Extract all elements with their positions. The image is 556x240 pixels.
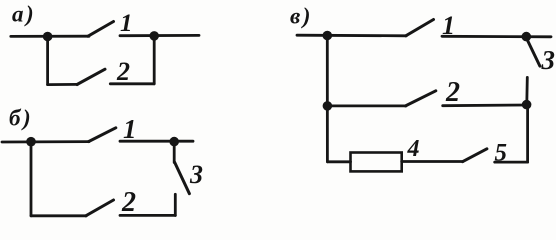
node junction left (circuit a) bbox=[43, 32, 53, 42]
switch 2 blade (circuit b) bbox=[86, 200, 114, 216]
wire bbox=[442, 35, 551, 38]
svg-text:2: 2 bbox=[445, 77, 460, 108]
svg-text:1: 1 bbox=[123, 114, 137, 144]
svg-text:б): б) bbox=[9, 106, 33, 131]
resistor 4 (circuit v) bbox=[351, 153, 402, 172]
svg-text:4: 4 bbox=[407, 136, 420, 162]
wire bbox=[2, 140, 89, 143]
node junction left mid (circuit v) bbox=[323, 101, 333, 111]
wire bbox=[495, 161, 528, 164]
wire bbox=[326, 36, 329, 162]
switch 5 blade (circuit v) bbox=[463, 149, 487, 162]
switch 3 blade (circuit b) bbox=[175, 162, 190, 194]
switch 1 blade (circuit a) bbox=[88, 22, 114, 37]
wire bbox=[120, 140, 193, 143]
node junction left (circuit b) bbox=[26, 137, 36, 147]
node junction right top (circuit v) bbox=[522, 32, 532, 42]
wire bbox=[120, 34, 199, 37]
node junction right (circuit a) bbox=[149, 31, 159, 41]
svg-text:2: 2 bbox=[121, 187, 136, 218]
svg-text:1: 1 bbox=[120, 10, 133, 37]
wire bbox=[297, 34, 406, 37]
wire bbox=[443, 104, 527, 107]
wire bbox=[327, 160, 350, 163]
wire bbox=[327, 105, 406, 108]
wire bbox=[526, 105, 529, 163]
wire bbox=[120, 214, 175, 217]
svg-text:3: 3 bbox=[541, 45, 556, 75]
wire bbox=[174, 194, 177, 215]
switch 2 blade (circuit a) bbox=[77, 69, 105, 84]
wire bbox=[46, 37, 49, 85]
svg-text:в): в) bbox=[290, 4, 313, 29]
wire bbox=[173, 142, 176, 163]
wire bbox=[30, 142, 33, 216]
node junction right mid (circuit v) bbox=[522, 100, 532, 110]
svg-text:2: 2 bbox=[116, 57, 130, 86]
switch 1 blade (circuit b) bbox=[89, 128, 116, 142]
wire bbox=[11, 35, 89, 38]
wire bbox=[31, 214, 86, 217]
svg-text:3: 3 bbox=[189, 160, 203, 189]
node junction left top (circuit v) bbox=[323, 31, 333, 41]
wire bbox=[153, 36, 156, 84]
wire bbox=[48, 83, 78, 86]
svg-text:а): а) bbox=[12, 2, 36, 27]
switch 2 blade (circuit v) bbox=[406, 91, 436, 106]
wire bbox=[525, 77, 528, 103]
node junction right (circuit b) bbox=[169, 137, 179, 147]
wire bbox=[402, 160, 463, 163]
switch 1 blade (circuit v) bbox=[406, 20, 434, 36]
wire bbox=[110, 82, 154, 85]
switch 3 blade (circuit v) bbox=[528, 41, 540, 67]
